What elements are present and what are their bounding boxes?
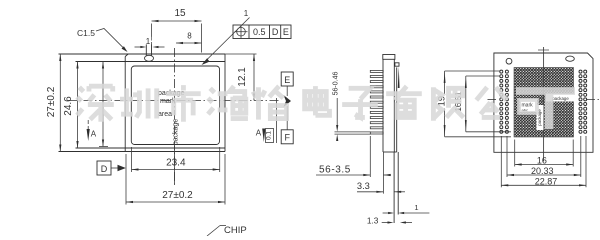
svg-text:D: D <box>101 164 108 174</box>
svg-text:E: E <box>283 27 289 37</box>
svg-text:package: package <box>173 119 180 146</box>
svg-text:F: F <box>284 133 290 143</box>
svg-text:3.3: 3.3 <box>357 181 370 191</box>
svg-text:C1.5: C1.5 <box>77 28 95 38</box>
svg-text:A: A <box>256 129 262 138</box>
svg-text:24.6: 24.6 <box>63 96 74 116</box>
svg-text:CHIP: CHIP <box>224 225 247 236</box>
svg-text:20.33: 20.33 <box>531 166 554 176</box>
svg-text:E: E <box>284 75 290 85</box>
svg-text:0.5: 0.5 <box>253 27 266 37</box>
svg-text:16: 16 <box>537 155 547 165</box>
svg-text:12.1: 12.1 <box>237 67 248 87</box>
svg-text:22.87: 22.87 <box>535 177 558 187</box>
svg-text:27±0.2: 27±0.2 <box>162 190 193 201</box>
svg-text:8: 8 <box>187 32 192 41</box>
svg-text:23.4: 23.4 <box>166 157 186 168</box>
svg-text:56-0.46: 56-0.46 <box>333 72 340 96</box>
svg-text:27±0.2: 27±0.2 <box>46 86 57 117</box>
svg-text:1: 1 <box>414 203 418 212</box>
svg-text:15: 15 <box>174 8 186 19</box>
svg-text:A: A <box>91 130 97 139</box>
svg-text:area: area <box>158 111 172 118</box>
svg-text:package: package <box>552 96 569 101</box>
svg-text:1.3: 1.3 <box>367 216 379 226</box>
svg-text:1: 1 <box>146 37 151 46</box>
svg-text:D: D <box>272 27 279 37</box>
svg-text:0.1: 0.1 <box>266 131 273 140</box>
svg-text:1: 1 <box>244 9 249 18</box>
svg-text:56-3.5: 56-3.5 <box>319 165 351 176</box>
